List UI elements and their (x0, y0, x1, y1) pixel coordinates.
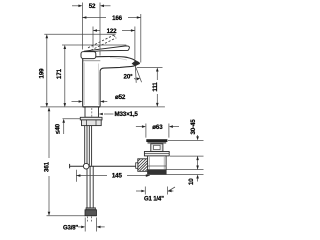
svg-text:G3/8": G3/8" (63, 226, 78, 232)
washer plate (80, 117, 102, 120)
deck underside line (63, 118, 81, 120)
dimension o52 base (72, 101, 108, 103)
dimension 52 top (72, 3, 111, 9)
svg-text:≤40: ≤40 (55, 123, 62, 134)
dimension 361 vertical (47, 110, 86, 215)
svg-text:G1 1/4": G1 1/4" (144, 197, 164, 203)
drain plug cap (146, 139, 167, 142)
svg-text:10: 10 (188, 178, 195, 185)
drain plug neck (151, 144, 163, 152)
drain body thread band (148, 169, 167, 174)
dimension o63 drain plug (136, 124, 179, 138)
svg-text:20°: 20° (124, 74, 134, 81)
rod end tick (69, 164, 71, 168)
svg-text:111: 111 (152, 82, 159, 92)
svg-text:M33×1,5: M33×1,5 (115, 111, 139, 118)
drain right extension lines (165, 140, 204, 174)
rod ball joint (83, 163, 89, 169)
lever handle wedge (84, 46, 129, 52)
dimension G3/8 (78, 218, 105, 232)
rod clevis (138, 159, 148, 172)
faucet collar line (83, 60, 101, 62)
pop-up rod horizontal (69, 165, 137, 167)
20 degree spray angle detail (131, 66, 142, 83)
dimension G1 1/4 (136, 187, 175, 195)
svg-text:ø63: ø63 (152, 124, 163, 131)
deck / countertop line (40, 106, 82, 108)
dimension 111 vertical right (137, 68, 163, 104)
drain flange (144, 152, 169, 156)
G3/8 hose nut (86, 208, 96, 210)
svg-text:52: 52 (89, 3, 96, 10)
svg-text:30-45: 30-45 (190, 119, 197, 135)
faucet body outline (83, 57, 140, 107)
dimension 166 (82, 14, 140, 63)
rod pin at clevis (136, 163, 138, 169)
dimension 199 vertical (44, 34, 115, 104)
threaded shank (85, 107, 99, 117)
dimension 30-45 plug height (197, 135, 199, 170)
svg-text:ø52: ø52 (115, 94, 126, 101)
aerator tip (132, 61, 140, 67)
dashed stubs below nut (88, 217, 92, 223)
dimension 10 (197, 178, 199, 182)
supply hoses upper (85, 126, 92, 166)
drain body (148, 156, 167, 175)
svg-text:171: 171 (56, 68, 63, 79)
svg-text:199: 199 (38, 68, 45, 79)
raised lever dashed position (88, 35, 116, 50)
svg-text:122: 122 (107, 28, 118, 35)
dimension max 40 deck thickness (63, 122, 65, 135)
dimension 145 (76, 170, 149, 182)
dimension 171 vertical (62, 45, 126, 104)
svg-text:361: 361 (44, 161, 51, 172)
svg-text:145: 145 (112, 173, 123, 180)
svg-text:166: 166 (112, 15, 123, 22)
lever handle block (81, 52, 96, 59)
faucet chrome shading (85, 58, 127, 105)
dimension 122 (93, 27, 135, 60)
extension lines from 52 down to faucet (82, 9, 100, 56)
dimension M33x1,5 (104, 113, 114, 115)
mounting nut (82, 120, 102, 126)
supply hose lower (87, 166, 93, 209)
